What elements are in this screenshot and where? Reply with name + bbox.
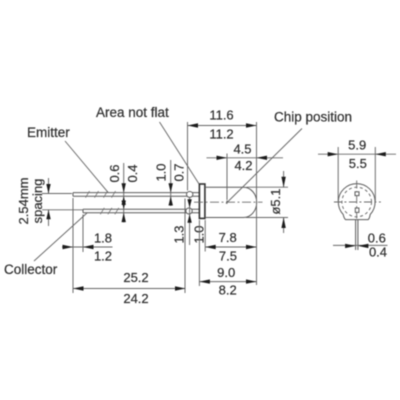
svg-text:1.0: 1.0 xyxy=(154,163,169,181)
svg-text:Area not flat: Area not flat xyxy=(96,105,169,120)
centerline side view xyxy=(194,201,263,203)
dimension dia 5.1 xyxy=(246,171,288,233)
flange side view xyxy=(199,184,205,218)
svg-text:Chip position: Chip position xyxy=(274,110,352,125)
dimension 4.5/4.2 xyxy=(207,141,284,200)
front view dashed inner circle xyxy=(342,187,372,217)
svg-text:0.7: 0.7 xyxy=(172,163,187,181)
svg-text:0.4: 0.4 xyxy=(369,244,387,259)
dimension 1.8/1.2 xyxy=(62,198,113,293)
dimension 11.6/11.2 xyxy=(188,108,257,286)
chip square front view xyxy=(355,192,359,196)
crimp stopper top lead xyxy=(187,191,193,197)
wire top lead emitter xyxy=(73,193,199,197)
svg-text:Collector: Collector xyxy=(4,262,58,277)
front view vertical centerline xyxy=(356,181,358,220)
crimp stopper bottom lead xyxy=(186,208,192,214)
svg-text:11.2: 11.2 xyxy=(209,127,233,142)
svg-text:5.5: 5.5 xyxy=(349,156,367,171)
svg-text:4.5: 4.5 xyxy=(233,141,251,156)
dimension 1.0/0.7 rotated top lead xyxy=(154,160,187,206)
svg-text:1.2: 1.2 xyxy=(94,248,112,263)
svg-text:24.2: 24.2 xyxy=(123,291,148,306)
svg-text:5.9: 5.9 xyxy=(348,138,366,153)
svg-text:7.5: 7.5 xyxy=(219,248,237,263)
leader collector xyxy=(34,213,87,261)
leader chip position xyxy=(226,129,302,204)
dimension 7.8/7.5 xyxy=(205,220,256,263)
svg-text:1.8: 1.8 xyxy=(94,230,112,245)
svg-text:25.2: 25.2 xyxy=(123,270,148,285)
break marks top lead xyxy=(86,191,116,198)
svg-text:0.6: 0.6 xyxy=(368,231,386,246)
front view outline xyxy=(338,184,375,220)
svg-text:Emitter: Emitter xyxy=(27,125,70,140)
svg-text:spacing: spacing xyxy=(30,179,45,224)
svg-text:9.0: 9.0 xyxy=(217,265,235,280)
leader area not flat xyxy=(160,122,199,184)
dimension 9.0/8.2 xyxy=(199,220,256,297)
svg-text:7.8: 7.8 xyxy=(219,230,237,245)
svg-text:11.6: 11.6 xyxy=(209,108,233,123)
svg-text:2.54mm: 2.54mm xyxy=(16,178,31,225)
svg-text:8.2: 8.2 xyxy=(219,282,237,297)
svg-text:4.2: 4.2 xyxy=(234,158,252,173)
svg-text:0.4: 0.4 xyxy=(125,164,140,182)
wire front lead xyxy=(356,220,358,250)
leader emitter xyxy=(65,141,108,192)
dimension 5.9/5.5 front view xyxy=(318,138,396,202)
body side view xyxy=(205,187,257,217)
break marks bottom lead xyxy=(100,208,119,215)
chip tick side view xyxy=(226,201,228,204)
dimension 1.3/1.0 rotated bottom lead stopper xyxy=(172,198,207,246)
dimension 25.2/24.2 xyxy=(73,199,186,307)
front view horizontal centerline xyxy=(334,201,381,203)
dimension 2.54mm spacing xyxy=(16,178,83,226)
wire bottom lead collector xyxy=(83,209,199,213)
dimension 0.6/0.4 front lead xyxy=(333,231,388,260)
svg-text:1.3: 1.3 xyxy=(172,225,187,243)
svg-text:0.6: 0.6 xyxy=(107,164,122,182)
svg-text:ø5.1: ø5.1 xyxy=(268,188,283,214)
dimension 0.6/0.4 rotated top lead xyxy=(107,163,140,223)
anode post front view xyxy=(355,208,359,212)
